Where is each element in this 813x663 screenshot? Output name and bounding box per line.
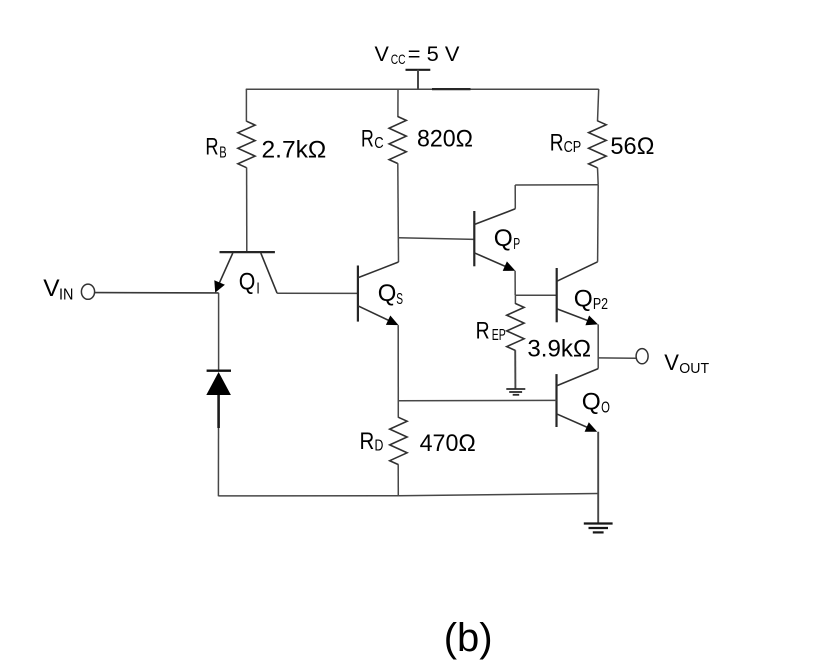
svg-text:820Ω: 820Ω [417,125,473,152]
wire: RB to QI base [246,168,248,253]
label RCP [550,129,581,156]
resistor REP [507,304,524,351]
wire: QS emitter down to RD [397,325,399,418]
wire: junction down to diode [218,293,220,370]
svg-text:V: V [664,350,679,375]
svg-text:2.7kΩ: 2.7kΩ [262,137,327,164]
label QO [582,389,610,417]
svg-text:V: V [375,42,390,66]
wire: QP collector up to node [514,185,516,209]
label QS [378,280,403,308]
label REP [476,317,506,344]
wire: rail to RB [245,89,247,122]
svg-text:OUT: OUT [679,360,709,377]
wire: QP emitter down to REP node [514,271,516,296]
wire: rail to RC [397,89,399,117]
wire: node to REP top [514,295,516,304]
label RD [360,428,384,455]
svg-text:C: C [374,135,383,152]
label VCC = 5 V [375,42,461,67]
wire: to VOUT terminal [598,357,636,359]
svg-text:IN: IN [59,286,73,303]
svg-text:EP: EP [492,327,506,344]
node: VIN terminal [81,284,94,299]
svg-text:Q: Q [239,269,256,296]
resistor RC [389,117,406,164]
wire: bottom rail [218,495,398,497]
ground (REP) [506,389,525,395]
svg-text:S: S [396,291,403,308]
wire: rail corner down to RCP [598,89,599,121]
svg-text:P: P [513,236,520,253]
wire: REP node to QP2 base [515,294,557,296]
svg-text:Q: Q [582,389,601,416]
wire: RC down to QS collector node [397,163,400,262]
svg-text:R: R [205,134,218,161]
power VCC tap symbol [406,70,431,89]
wire: QO emitter down to ground [597,432,599,524]
svg-text:R: R [360,428,375,455]
svg-text:Q: Q [494,225,513,252]
wire: QS emitter node to QO base [398,399,556,401]
svg-text:R: R [550,129,564,156]
transistor QP2 [557,262,598,325]
node: VOUT terminal [636,349,648,364]
svg-text:R: R [361,125,374,152]
svg-text:(b): (b) [444,616,493,660]
wire: REP bottom to ground [514,350,516,389]
svg-text:R: R [476,317,490,344]
label RC [361,125,384,152]
svg-text:V: V [43,275,60,302]
svg-text:B: B [219,144,226,161]
wire: VCC top rail [246,88,599,90]
label VOUT [664,350,709,377]
wire: diode anode to bottom rail [217,428,219,496]
svg-text:I: I [256,280,259,297]
label QP [494,225,520,253]
label VIN [43,275,73,304]
wire: RD bottom to rail [397,464,399,496]
ground (QO) [584,524,613,533]
label QP2 [574,285,608,312]
transistor QS [358,262,399,325]
resistor RCP [589,121,607,168]
svg-text:CP: CP [564,139,582,156]
wire: QS collector node to QP base [399,238,475,240]
wire: QI collector to QS base [277,292,358,294]
svg-text:CC: CC [391,51,406,67]
wire: VIN to QI emitter junction [95,292,219,294]
wire: node down to QP2 collector [597,185,600,262]
wire: RCP down to node [597,168,600,185]
svg-text:= 5 V: = 5 V [408,42,460,66]
svg-text:O: O [601,399,610,416]
transistor QP [474,209,515,271]
label QI [239,269,260,298]
svg-text:3.9kΩ: 3.9kΩ [527,335,591,362]
svg-text:Q: Q [574,285,593,312]
diode D1 [206,371,231,428]
svg-text:470Ω: 470Ω [420,430,476,457]
svg-text:P2: P2 [593,296,608,313]
svg-text:D: D [375,438,384,455]
transistor QO [557,369,599,432]
svg-text:Q: Q [378,280,397,307]
resistor RB [238,121,255,168]
svg-text:56Ω: 56Ω [610,133,654,160]
transistor QI [214,252,277,293]
label RB [205,134,226,162]
wire: QP2 emitter down to QO collector [597,324,599,368]
resistor RD [390,417,407,464]
wire: node to QP collector [515,184,598,186]
